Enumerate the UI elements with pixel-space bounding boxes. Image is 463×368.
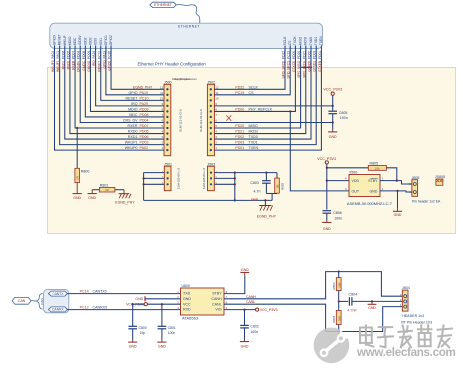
svg-text:GND: GND [241,345,249,349]
resistor R802 [275,173,285,194]
wire PHY_REFCLK to oscillator OUT [289,110,349,191]
wire VDD [327,180,349,182]
J500 pin labels and numbers [123,85,164,150]
right harness wires from J502 [214,46,321,151]
svg-text:WKUP1: WKUP1 [125,141,138,145]
svg-text:C803: C803 [250,181,259,185]
svg-text:GND: GND [241,268,249,272]
svg-text:R802: R802 [280,182,284,190]
ground GND (C800) [132,340,134,343]
svg-text:WKUP1_PA01: WKUP1_PA01 [56,51,60,72]
solder jumper JS805 [435,175,445,186]
svg-text:SLM-105-06-L-S: SLM-105-06-L-S [176,168,180,189]
svg-text:R801: R801 [100,183,109,187]
svg-text:JS805: JS805 [435,175,445,179]
svg-text:TXCK: TXCK [293,36,297,46]
svg-text:RXD: RXD [183,308,191,312]
svg-text:GMDC_PD08: GMDC_PD08 [82,51,86,71]
connector J500 [164,80,183,155]
svg-text:C802: C802 [250,325,259,329]
ground GND (C804) [368,300,377,310]
earth ground EGND_PHY (mid) [257,199,277,218]
ground GND (Y500) [393,191,402,217]
svg-text:TXD1: TXD1 [314,37,318,46]
resistor R804 [332,301,341,331]
watermark logo [314,328,352,364]
svg-text:ETHERNET: ETHERNET [154,3,172,7]
left harness wires to J500 [55,46,165,151]
svg-text:GTXCK_PD00: GTXCK_PD00 [292,51,296,72]
svg-text:SCLK: SCLK [249,85,259,89]
svg-text:11: 11 [160,91,163,95]
svg-text:C806: C806 [333,211,342,215]
ground GND (C801) [161,340,163,343]
power port VCC_P5V0 [126,303,180,307]
svg-text:J503: J503 [207,162,215,166]
svg-text:WKUP0: WKUP0 [125,146,138,150]
port CANTX [48,291,67,296]
net label ETHERNET (callout) [150,2,177,7]
resistor R800 [75,128,89,182]
svg-text:GPIO0: GPIO0 [53,35,57,45]
svg-text:59R: 59R [337,316,341,321]
svg-text:STBY: STBY [212,292,222,296]
J502 pin numbers and labels [215,85,272,150]
svg-text:RT Pin Header 1X3: RT Pin Header 1X3 [401,320,432,324]
svg-text:PA02: PA02 [140,146,149,150]
svg-text:RXD0_PD05: RXD0_PD05 [66,51,70,70]
svg-text:RXER: RXER [128,124,138,128]
power port VCC_P3V3 (top) [323,88,342,106]
svg-text:STBY: STBY [368,179,378,183]
capacitor C805 [328,106,347,123]
capacitor C803 [250,173,270,194]
svg-text:C804: C804 [349,293,358,297]
harness ports (right group labels) [283,36,323,46]
svg-text:CANTX: CANTX [52,292,64,296]
svg-text:12: 12 [215,85,219,89]
svg-text:RESET_PC10: RESET_PC10 [97,51,101,72]
svg-text:59R: 59R [337,282,341,287]
svg-text:PD05: PD05 [140,130,149,134]
svg-text:SLM-112-01-G-S: SLM-112-01-G-S [179,109,183,132]
net label CAN (callout) [12,297,31,304]
connector J503 [202,162,218,190]
svg-text:WKUP: WKUP [63,35,67,46]
svg-text:PD01: PD01 [235,146,244,150]
svg-text:J501: J501 [164,162,172,166]
capacitor C801 [158,304,176,339]
svg-text:CAN: CAN [18,299,26,303]
svg-text:VCC: VCC [183,302,191,306]
svg-text:15p: 15p [140,331,146,335]
svg-text:C801: C801 [168,326,176,330]
svg-text:R803: R803 [332,282,336,290]
wires J503 to node [214,173,236,202]
harness connection squiggle [176,4,200,23]
wire RC bottom node [266,194,277,201]
svg-text:GND: GND [323,227,331,231]
svg-text:GPIO1: GPIO1 [104,35,108,45]
svg-text:PD20: PD20 [235,124,244,128]
net labels on right wires [282,51,322,79]
svg-text:J500: J500 [164,80,172,84]
svg-text:CRSDV_PD04: CRSDV_PD04 [77,51,81,73]
port CANRX [48,307,67,312]
svg-text:PA29: PA29 [140,102,149,106]
svg-text:SPI0_NPCS_PC19: SPI0_NPCS_PC19 [287,51,291,79]
connector J805 [409,176,441,204]
svg-text:PD02: PD02 [235,135,244,139]
svg-text:PD03: PD03 [235,141,244,145]
wire CANL [224,300,402,333]
svg-text:VIO: VIO [215,308,221,312]
svg-text:GTXD0_PD02: GTXD0_PD02 [308,51,312,72]
svg-text:RESET: RESET [126,96,139,100]
svg-text:IRQ: IRQ [131,102,138,106]
svg-text:GTXEN_PD01: GTXEN_PD01 [318,51,322,72]
svg-text:TXD0: TXD0 [249,135,258,139]
ground GND (R801) [88,190,97,200]
svg-text:MOSI: MOSI [249,130,258,134]
svg-text:PC14: PC14 [80,290,89,294]
svg-text:GND: GND [88,196,96,200]
svg-text:ASEMB-50.000MHZ-LC-T: ASEMB-50.000MHZ-LC-T [347,201,393,206]
svg-text:Design Implemented: Design Implemented [175,78,198,81]
svg-text:PD21: PD21 [235,130,244,134]
svg-text:J804: J804 [402,286,410,290]
svg-text:PD07: PD07 [140,124,149,128]
wire J502 pin9 to C805 node [214,105,332,107]
svg-text:10k: 10k [375,166,380,170]
svg-text:U800: U800 [182,284,190,288]
svg-text:CANRX: CANRX [52,308,64,312]
svg-text:Ethernet PHY Header Configurat: Ethernet PHY Header Configuration [138,61,207,66]
svg-text:12: 12 [160,85,164,89]
svg-text:VCC_P3V3: VCC_P3V3 [317,157,336,161]
svg-text:MDIO: MDIO [68,36,72,45]
svg-text:100n: 100n [168,331,176,335]
svg-text:DNP: DNP [251,197,258,201]
svg-text:HEADER 1x3: HEADER 1x3 [402,314,424,318]
svg-text:TXEN: TXEN [249,146,259,150]
svg-text:ETHERNET: ETHERNET [178,24,200,28]
svg-text:PD09: PD09 [140,107,149,111]
svg-text:J805: J805 [412,176,420,180]
svg-text:GPIO_PA19: GPIO_PA19 [102,51,106,69]
svg-text:GND: GND [183,297,191,301]
ground GND (R800) [73,183,82,200]
svg-text:PC10: PC10 [140,96,149,100]
svg-text:GND: GND [368,306,376,310]
svg-text:CRS_DV: CRS_DV [123,118,138,122]
svg-text:TXD: TXD [183,292,191,296]
capacitor C800 [128,304,146,339]
svg-text:0R: 0R [105,188,108,192]
GND bar (U800 GND pin) [135,296,180,301]
harness region ETHERNET [50,23,323,48]
junction VDD tap [326,180,328,182]
svg-text:GND: GND [370,189,378,193]
svg-text:WKUP0_PA02: WKUP0_PA02 [51,51,55,72]
svg-text:PD00: PD00 [235,107,244,111]
svg-text:IOD5V: IOD5V [78,35,82,46]
svg-text:MOSI: MOSI [304,37,308,46]
svg-text:R804: R804 [332,315,336,323]
svg-text:4.7n: 4.7n [254,190,261,194]
power port VCC_P3V3 (oscillator) [317,157,336,210]
svg-text:J502: J502 [207,80,215,84]
svg-text:PD04: PD04 [140,118,149,122]
harness ports (left group labels) [53,34,114,45]
wire VIO to VCC_P3V3 [224,308,278,312]
svg-text:CS: CS [249,91,255,95]
svg-text:PC12: PC12 [80,306,89,310]
wire CANTX0 [68,290,181,294]
svg-text:MDC: MDC [129,113,138,117]
wire STBY to GND [224,268,249,293]
svg-text:TXEN: TXEN [319,36,323,45]
junction termination mid node [338,300,340,302]
wire CANH [224,271,402,299]
svg-text:PD06: PD06 [140,135,149,139]
svg-text:IRQ_PA29: IRQ_PA29 [92,51,96,66]
resistor R805 [327,161,397,180]
svg-text:GND: GND [394,213,402,217]
svg-text:GPIO2: GPIO2 [109,35,113,45]
svg-text:CS: CS [288,40,292,45]
svg-text:GND: GND [129,344,137,348]
IC U800 CAN transceiver [177,284,227,321]
CAN squiggle and brace [31,293,44,309]
svg-text:PHY_REFCLK: PHY_REFCLK [249,107,273,111]
svg-text:PA19: PA19 [140,91,149,95]
junction node C805 top [332,105,334,107]
svg-text:CANH: CANH [246,295,256,299]
svg-text:11: 11 [215,91,218,95]
svg-text:CANTX0: CANTX0 [93,290,107,294]
capacitor C804 [339,293,403,313]
svg-text:100n: 100n [334,216,342,220]
svg-text:CANL: CANL [212,302,222,306]
svg-text:10: 10 [160,96,164,100]
svg-text:www.elecfans.com: www.elecfans.com [356,346,456,359]
svg-text:MDC: MDC [73,37,77,45]
svg-text:GPIO: GPIO [129,91,138,95]
svg-text:1M: 1M [275,184,279,189]
wire GND net of Y500 [380,190,412,192]
svg-text:4.7nF: 4.7nF [348,309,358,313]
watermark chinese text [360,325,452,347]
svg-text:OUT: OUT [352,189,360,193]
svg-text:GND: GND [158,344,166,348]
svg-text:GND: GND [329,135,337,139]
no-ERC marker on J502 pin 7 [226,115,231,120]
svg-text:CANL: CANL [246,300,255,304]
svg-text:MDIO: MDIO [128,107,138,111]
harness region CAN [44,289,69,312]
svg-text:SLM-112-01-G-S: SLM-112-01-G-S [199,109,203,132]
svg-text:R805: R805 [370,161,379,165]
svg-text:GND: GND [73,196,81,200]
wires J501 to EGND bus [143,173,165,201]
svg-text:MISO: MISO [298,36,302,45]
svg-text:EGND_PHY: EGND_PHY [257,214,277,218]
junction R805 tap [326,167,328,169]
svg-text:ATA6563: ATA6563 [182,316,199,321]
svg-text:GPIO0_PC30: GPIO0_PC30 [108,51,112,71]
svg-text:IOD2: IOD2 [83,37,87,45]
svg-text:CANH: CANH [211,297,222,301]
junction R800 tap [76,127,78,129]
svg-text:10: 10 [215,96,219,100]
svg-text:PC19: PC19 [235,91,244,95]
svg-text:IO50: IO50 [94,38,98,45]
capacitor C806 [323,211,343,221]
svg-text:100n: 100n [340,116,348,120]
svg-text:0R: 0R [76,176,80,180]
svg-text:VDD: VDD [352,179,360,183]
net labels on left wires [51,51,112,73]
ground GND (C805) [328,122,337,139]
svg-text:C805: C805 [339,111,348,115]
svg-text:TXD0: TXD0 [309,37,313,46]
svg-text:RESET: RESET [58,34,62,45]
svg-text:RXD1_PD06: RXD1_PD06 [61,51,65,70]
earth ground EGND_PHY (R801) [115,190,135,205]
svg-text:SPI0_MOSI_PD21: SPI0_MOSI_PD21 [302,51,306,78]
svg-text:PD03: PD03 [140,141,149,145]
svg-text:VCC_P3V3: VCC_P3V3 [260,308,278,312]
resistor R803 [332,272,341,302]
svg-text:IO51: IO51 [99,38,103,45]
ground GND (C802) [244,339,246,342]
connector J804 [400,286,433,324]
svg-text:IOD3: IOD3 [88,37,92,45]
svg-text:TXD1: TXD1 [249,141,258,145]
svg-text:GTXD1_PD03: GTXD1_PD03 [313,51,317,72]
wire J502 pin6 to C805 bottom node [214,121,332,123]
svg-text:C800: C800 [139,326,147,330]
svg-text:MISO: MISO [249,124,258,128]
svg-text:VCC_P3V3: VCC_P3V3 [323,88,342,92]
svg-text:PD22: PD22 [235,85,244,89]
resistor R801 [92,183,124,192]
svg-text:SPI0_SPCK_PD22: SPI0_SPCK_PD22 [282,51,286,79]
oscillator Y500 [345,171,384,197]
schematic sheet background [48,68,456,234]
connector J501 [162,162,181,190]
svg-text:RXER_PD07: RXER_PD07 [72,51,76,70]
svg-text:SCLK: SCLK [283,36,287,45]
ground GND (C806) [326,221,328,223]
svg-text:CANRX0: CANRX0 [93,306,108,310]
svg-text:GMDIO_PD09: GMDIO_PD09 [87,51,91,72]
svg-text:PD08: PD08 [140,113,149,117]
EGND bus wire [144,199,273,201]
connector J502 [199,80,215,155]
svg-text:GND: GND [135,297,143,301]
svg-text:RXD0: RXD0 [128,130,138,134]
svg-text:Y500: Y500 [349,171,357,175]
red marker on right group [301,66,312,68]
wire top node to RC [234,172,277,174]
svg-text:EGND_PHY: EGND_PHY [115,201,135,205]
svg-text:RXD1: RXD1 [128,135,138,139]
junction node C805 bottom [332,121,334,123]
svg-text:SLM-105-06-L-S: SLM-105-06-L-S [202,168,206,189]
svg-text:Pin header 1x2 EA: Pin header 1x2 EA [412,199,441,203]
capacitor C802 [240,310,259,339]
svg-text:SPI0_MISO_PD20: SPI0_MISO_PD20 [297,51,301,78]
svg-text:EGND_PHY: EGND_PHY [133,86,153,90]
svg-text:100n: 100n [250,330,258,334]
wire CANRX0 [68,306,181,310]
svg-text:R800: R800 [81,169,90,173]
wire STBY net [380,180,412,185]
